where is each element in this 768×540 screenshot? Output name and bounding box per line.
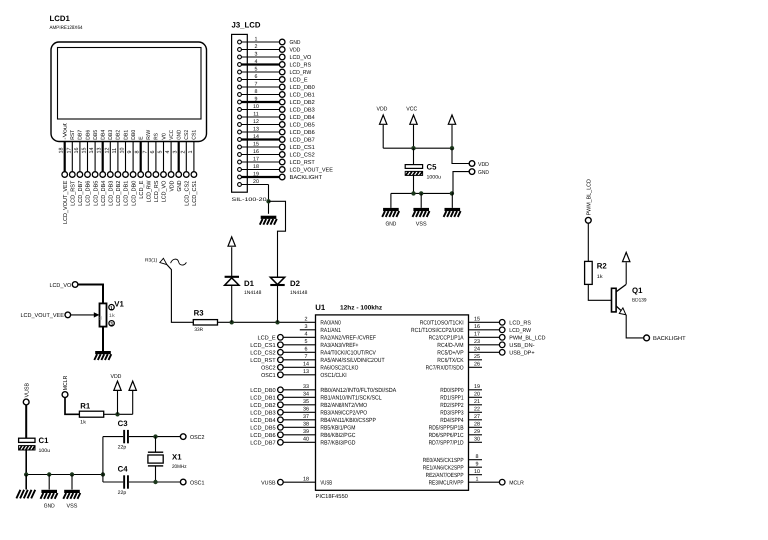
svg-text:LCD_E: LCD_E (139, 180, 145, 198)
svg-text:36: 36 (303, 407, 309, 413)
svg-text:15: 15 (253, 142, 259, 148)
svg-text:40: 40 (303, 437, 309, 443)
LCD1 pin 12 DB3 -> net LCD_DB3 (104, 130, 114, 206)
svg-text:RA4/T0CKI/C1OUT/RCV: RA4/T0CKI/C1OUT/RCV (320, 349, 376, 356)
svg-text:BACKLIGHT: BACKLIGHT (653, 336, 686, 342)
power arrow (VDD terminal branch) (448, 115, 455, 148)
junction bottom bus C5 (411, 191, 415, 195)
LCD1 pin 8 E -> net LCD_E (135, 136, 145, 199)
svg-text:OSC1: OSC1 (261, 373, 276, 379)
wire R2 to Q1 base (588, 284, 611, 300)
svg-text:LCD_DB4: LCD_DB4 (101, 181, 107, 206)
svg-text:16: 16 (253, 149, 259, 155)
LCD1 pin 5 V0 -> net LCD_VO (158, 133, 168, 202)
junction X1 top (153, 434, 157, 438)
wire VUSB to C1 (25, 405, 27, 438)
U1 pin 29 RD6/SPP6/P1C (429, 429, 482, 439)
svg-text:9: 9 (127, 151, 133, 154)
svg-text:20MHz: 20MHz (172, 464, 187, 470)
svg-text:E: E (139, 136, 145, 140)
svg-text:RD1/SPP1: RD1/SPP1 (440, 394, 464, 401)
svg-text:RB3/AN9/CCP2/VPO: RB3/AN9/CCP2/VPO (320, 409, 367, 416)
svg-text:LCD_RW: LCD_RW (290, 70, 312, 76)
wire stub to GND ground (390, 193, 392, 208)
svg-text:VDD: VDD (169, 181, 175, 192)
J3 pin 3 -> net LCD_VO (238, 52, 312, 61)
wire stub to VSS ground (420, 193, 422, 208)
svg-text:LCD_DB5: LCD_DB5 (93, 181, 99, 206)
svg-text:LCD_DB0: LCD_DB0 (290, 85, 315, 91)
LCD1 pin 2 CS2 -> net LCD_CS2 (180, 130, 190, 206)
svg-text:LCD_E: LCD_E (258, 335, 276, 341)
LCD1 pin 14 DB5 -> net LCD_DB5 (89, 130, 99, 206)
svg-text:LCD_DB1: LCD_DB1 (250, 395, 275, 401)
svg-text:RE1/AN6/CK2SPP: RE1/AN6/CK2SPP (423, 464, 464, 471)
wire Q1 collector to power (625, 262, 627, 284)
junction C1 gnd (24, 472, 28, 476)
svg-text:LCD_DB4: LCD_DB4 (250, 418, 275, 424)
svg-text:LCD_RS: LCD_RS (154, 180, 160, 202)
U1 pin 15 RC0/T1OSO/T1CKI (420, 317, 531, 327)
J3 pin 2 -> net VDD (238, 44, 301, 53)
svg-text:38: 38 (303, 422, 309, 428)
J3 pin 12 -> net LCD_DB5 (238, 119, 315, 128)
power arrow 2 (R1) (129, 381, 136, 414)
svg-text:4: 4 (165, 151, 171, 154)
power arrow (Q1) (623, 252, 630, 261)
svg-text:1: 1 (255, 37, 258, 43)
svg-text:LCD_VOUT_VEE: LCD_VOUT_VEE (21, 313, 65, 319)
J3 pin 10 -> net LCD_DB3 (238, 104, 315, 113)
terminal GND (453, 169, 489, 194)
svg-text:4: 4 (305, 332, 308, 338)
svg-text:39: 39 (303, 429, 309, 435)
svg-text:18: 18 (303, 477, 309, 483)
wire to C3 (103, 436, 123, 438)
J3 pin 1 -> net GND (238, 37, 301, 46)
U1 pin 38 RB5/KBI1/PGM (250, 422, 355, 432)
svg-text:V0: V0 (161, 133, 167, 140)
svg-text:25: 25 (474, 354, 480, 360)
svg-text:RD4/SPP4: RD4/SPP4 (440, 417, 464, 424)
svg-text:13: 13 (253, 127, 259, 133)
svg-text:RS: RS (154, 133, 160, 140)
svg-text:19: 19 (253, 172, 259, 178)
U1 pin 26 RC7/RX/DT/SDO (426, 362, 482, 372)
svg-text:RA1/AN1: RA1/AN1 (320, 327, 341, 334)
LCD1 pin 16 DB7 -> net LCD_DB7 (74, 130, 84, 206)
U1 pin 28 RD5/SPP5/P1B (429, 422, 482, 432)
terminal OSC2 (180, 434, 204, 441)
svg-text:R3(1): R3(1) (145, 257, 158, 263)
ground GND (382, 208, 399, 228)
U1 pin 19 RD0/SPP0 (440, 384, 482, 394)
LCD1 pin 18 -Vout -> net LCD_VOUT_VEE (59, 123, 69, 224)
svg-text:LCD_DB4: LCD_DB4 (290, 115, 315, 121)
LCD1 pin 4 VCC -> net VDD (165, 130, 175, 192)
svg-text:DB7: DB7 (78, 130, 84, 140)
LCD display LCD1 AMPIRE128X64 (50, 14, 207, 142)
U1 pin 6 RA4/T0CKI/C1OUT/RCV (250, 347, 376, 357)
svg-text:LCD_DB0: LCD_DB0 (250, 388, 275, 394)
junction R1/VDD (115, 412, 119, 416)
junction GND stub (47, 472, 51, 476)
U1 pin 22 RD3/SPP3 (440, 407, 482, 417)
svg-text:DB0: DB0 (131, 130, 137, 140)
U1 pin 24 RC5/D+/VP (437, 347, 535, 357)
svg-text:OSC1/CLKI: OSC1/CLKI (320, 372, 347, 379)
wire top power bus (383, 147, 452, 149)
svg-text:D2: D2 (290, 279, 301, 288)
svg-text:LCD_VO: LCD_VO (50, 283, 72, 289)
terminal VDD (452, 148, 489, 168)
svg-text:1000u: 1000u (427, 175, 442, 181)
power VDD arrow (R1) (111, 374, 122, 414)
svg-text:7: 7 (305, 354, 308, 360)
svg-text:RA3/AN3/VREF+: RA3/AN3/VREF+ (320, 342, 358, 349)
svg-text:17: 17 (474, 332, 480, 338)
LCD1 pin 6 RS -> net LCD_RS (150, 133, 160, 203)
U1 pin 18 VUSB (261, 477, 332, 487)
U1 pin 25 RC6/TX/CK (437, 354, 482, 364)
wire gnd bus bottom-left (26, 474, 103, 476)
svg-text:2: 2 (255, 44, 258, 50)
svg-text:VDD: VDD (478, 162, 489, 168)
U1 pin 7 RA5/AN4/SS/LVDIN/C2OUT (250, 354, 385, 364)
J3 pin 4 -> net LCD_RS (238, 59, 312, 68)
junction bottom bus right (450, 191, 454, 195)
svg-text:8: 8 (255, 89, 258, 95)
svg-text:10: 10 (120, 148, 126, 154)
svg-text:11: 11 (253, 112, 259, 118)
svg-text:-Vout: -Vout (63, 123, 69, 140)
svg-text:LCD_DB5: LCD_DB5 (290, 122, 315, 128)
resistor R3 33R (193, 309, 217, 334)
U1 pin 3 RA1/AN1 (300, 324, 342, 334)
svg-text:RB7/KBI3/PGD: RB7/KBI3/PGD (320, 439, 356, 446)
svg-text:LCD_VOUT_VEE: LCD_VOUT_VEE (63, 180, 69, 224)
svg-text:29: 29 (474, 429, 480, 435)
svg-text:MCLR: MCLR (509, 480, 524, 486)
U1 pin 37 RB4/AN11/KBI0/CSSPP (250, 414, 376, 424)
svg-text:R2: R2 (597, 261, 608, 270)
resistor R2 1k (585, 261, 608, 284)
svg-text:CS1: CS1 (192, 130, 198, 140)
svg-text:RC1/T1OSI/CCP2/UOE: RC1/T1OSI/CCP2/UOE (411, 327, 464, 334)
J3 pin 5 -> net LCD_RW (238, 67, 312, 76)
svg-text:5: 5 (158, 151, 164, 154)
svg-text:GND: GND (177, 130, 183, 140)
svg-text:V1: V1 (114, 299, 124, 308)
diode D1 1N4148 (225, 247, 262, 322)
svg-text:LCD_RST: LCD_RST (71, 180, 77, 206)
svg-text:VDD: VDD (290, 47, 301, 53)
svg-text:RD7/SPP7/P1D: RD7/SPP7/P1D (429, 439, 465, 446)
svg-text:3: 3 (255, 52, 258, 58)
U1 pin 14 RA6/OSC2/CLKO (261, 362, 359, 372)
diode D2 1N4148 (270, 277, 307, 322)
svg-text:C3: C3 (118, 419, 129, 428)
svg-text:1N4148: 1N4148 (244, 290, 262, 296)
svg-text:DB4: DB4 (101, 130, 107, 140)
svg-text:16: 16 (74, 148, 80, 154)
LCD1 pin 17 RST -> net LCD_RST (66, 129, 76, 206)
svg-text:LCD_CS1: LCD_CS1 (250, 343, 275, 349)
svg-text:C5: C5 (427, 163, 438, 172)
svg-text:VDD: VDD (377, 107, 388, 113)
svg-text:LCD_CS1: LCD_CS1 (192, 181, 198, 206)
svg-text:VDD: VDD (111, 374, 122, 380)
svg-text:RA6/OSC2/CLKO: RA6/OSC2/CLKO (320, 364, 358, 371)
wire C4 to OSC1 (129, 481, 181, 483)
svg-text:BD139: BD139 (632, 297, 647, 303)
svg-text:5: 5 (305, 339, 308, 345)
svg-text:OSC2: OSC2 (261, 365, 276, 371)
svg-text:C4: C4 (118, 465, 129, 474)
U1 pin 5 RA3/AN3/VREF+ (250, 339, 359, 349)
svg-text:RB5/KBI1/PGM: RB5/KBI1/PGM (320, 424, 355, 431)
svg-text:USB_DN-: USB_DN- (509, 343, 534, 349)
svg-text:17: 17 (66, 148, 72, 154)
resistor R1 1k (79, 401, 103, 425)
svg-text:LCD_VOUT_VEE: LCD_VOUT_VEE (290, 167, 334, 173)
wire R3 to U1 pin2 bus (218, 321, 316, 323)
svg-text:GND: GND (290, 40, 301, 46)
U1 pin 20 RD1/SPP1 (440, 392, 482, 402)
svg-text:RB6/KBI2/PGC: RB6/KBI2/PGC (320, 432, 356, 439)
J3 pin 8 -> net LCD_DB1 (238, 89, 315, 98)
svg-text:RC6/TX/CK: RC6/TX/CK (437, 357, 463, 364)
svg-text:12: 12 (104, 148, 110, 154)
wire wiper (71, 312, 100, 317)
svg-text:3: 3 (110, 321, 113, 327)
U1 pin 36 RB3/AN9/CCP2/VPO (250, 407, 367, 417)
wire stub VSS (71, 475, 73, 490)
svg-text:D1: D1 (244, 279, 255, 288)
svg-text:34: 34 (303, 392, 309, 398)
svg-text:LCD_CS2: LCD_CS2 (250, 350, 275, 356)
svg-text:BACKLIGHT: BACKLIGHT (290, 175, 323, 181)
junction VSS stub (70, 472, 74, 476)
svg-text:12: 12 (253, 119, 259, 125)
svg-text:RC7/RX/DT/SDO: RC7/RX/DT/SDO (426, 364, 464, 371)
svg-text:RA5/AN4/SS/LVDIN/C2OUT: RA5/AN4/SS/LVDIN/C2OUT (320, 357, 384, 364)
terminal MCLR (62, 376, 69, 398)
svg-text:LCD_RS: LCD_RS (509, 320, 531, 326)
svg-text:GND: GND (385, 221, 396, 227)
svg-text:LCD_DB0: LCD_DB0 (131, 181, 137, 206)
svg-text:VCC: VCC (169, 130, 175, 140)
connector J3_LCD SIL-100-20 (232, 21, 267, 204)
svg-text:LCD_DB3: LCD_DB3 (109, 181, 115, 206)
svg-text:RC5/D+/VP: RC5/D+/VP (437, 349, 463, 356)
J3 pin 17 -> net LCD_RST (238, 157, 316, 166)
svg-text:DB3: DB3 (108, 130, 114, 140)
svg-text:RE0/AN5/CK1SPP: RE0/AN5/CK1SPP (423, 457, 464, 464)
U1 pin 35 RB2/AN8/INT2/VMO (250, 399, 367, 409)
svg-text:LCD_VO: LCD_VO (162, 180, 168, 202)
junction D2 node (275, 320, 279, 324)
svg-text:13: 13 (303, 369, 309, 375)
svg-text:GND: GND (478, 170, 489, 176)
svg-text:DB5: DB5 (93, 130, 99, 140)
J3 pin 11 -> net LCD_DB4 (238, 112, 315, 121)
svg-text:1k: 1k (98, 316, 103, 320)
LCD1 pin 1 CS1 -> net LCD_CS1 (188, 130, 198, 206)
U1 pin 34 RB1/AN10/INT1/SCK/SCL (250, 392, 382, 402)
svg-text:RB2/AN8/INT2/VMO: RB2/AN8/INT2/VMO (320, 402, 367, 409)
wire C1 to gnd bus (25, 450, 27, 475)
terminal LCD_VO (50, 282, 78, 289)
svg-text:VUSB: VUSB (24, 383, 30, 398)
svg-text:AMPIRE128X64: AMPIRE128X64 (50, 25, 83, 31)
svg-text:LCD_RW: LCD_RW (509, 328, 531, 334)
svg-text:RD6/SPP6/P1C: RD6/SPP6/P1C (429, 432, 465, 439)
svg-text:CS2: CS2 (184, 130, 190, 140)
terminal LCD_VOUT_VEE (21, 312, 71, 319)
svg-text:LCD_RST: LCD_RST (250, 358, 276, 364)
wire V1 bottom to ground (102, 327, 104, 351)
svg-text:LCD_DB2: LCD_DB2 (250, 403, 275, 409)
terminal BACKLIGHT (644, 335, 686, 342)
J3 pin 7 -> net LCD_DB0 (238, 82, 315, 91)
LCD1 pin 10 DB1 -> net LCD_DB1 (120, 130, 130, 206)
svg-text:1k: 1k (597, 274, 603, 280)
svg-text:LCD_DB3: LCD_DB3 (290, 107, 315, 113)
svg-text:12hz - 100khz: 12hz - 100khz (340, 305, 382, 312)
svg-text:RST: RST (70, 129, 76, 140)
svg-text:LCD_CS1: LCD_CS1 (290, 145, 315, 151)
svg-text:USB_DP+: USB_DP+ (509, 350, 535, 356)
svg-text:22p: 22p (118, 490, 127, 496)
svg-text:21: 21 (474, 399, 480, 405)
crystal X1 20MHz (148, 437, 187, 482)
U1 pin 8 RE0/AN5/CK1SPP (423, 454, 482, 464)
svg-text:1N4148: 1N4148 (290, 290, 308, 296)
svg-text:20: 20 (253, 179, 259, 185)
transistor Q1 BD139 (612, 284, 647, 314)
capacitor C4 22p (118, 465, 129, 497)
svg-text:RD0/SPP0: RD0/SPP0 (440, 387, 464, 394)
svg-text:7: 7 (255, 82, 258, 88)
svg-text:14: 14 (303, 362, 309, 368)
svg-text:C1: C1 (39, 436, 50, 445)
svg-text:22p: 22p (118, 445, 127, 451)
svg-text:RB0/AN12/INT0/FLT0/SDI/SDA: RB0/AN12/INT0/FLT0/SDI/SDA (320, 387, 396, 394)
power VCC arrow (406, 107, 417, 149)
ground (unlabeled) (444, 208, 461, 217)
svg-text:DB1: DB1 (123, 130, 129, 140)
capacitor C1 100u (19, 436, 51, 454)
svg-text:LCD_DB2: LCD_DB2 (116, 181, 122, 206)
wire bottom gnd bus (391, 192, 453, 194)
svg-text:DB6: DB6 (85, 130, 91, 140)
junction J3-gnd node (266, 199, 270, 203)
junction D1 node (230, 320, 234, 324)
svg-text:LCD_CS2: LCD_CS2 (290, 152, 315, 158)
svg-text:RA0/AN0: RA0/AN0 (320, 319, 341, 326)
wire MCLR to R1 (65, 398, 79, 415)
svg-text:OSC1: OSC1 (190, 480, 205, 486)
svg-text:PIC18F4550: PIC18F4550 (316, 494, 348, 500)
svg-text:23: 23 (474, 339, 480, 345)
potentiometer V1 1k (98, 299, 125, 327)
svg-text:10: 10 (474, 469, 480, 475)
svg-text:27: 27 (474, 414, 480, 420)
svg-text:22: 22 (474, 407, 480, 413)
svg-text:LCD_E: LCD_E (290, 77, 308, 83)
svg-text:LCD_DB1: LCD_DB1 (124, 181, 130, 206)
power arrow above D1 (228, 237, 235, 246)
svg-text:RB4/AN11/KBI0/CSSPP: RB4/AN11/KBI0/CSSPP (320, 417, 376, 424)
svg-text:LCD_RST: LCD_RST (290, 160, 316, 166)
svg-text:RC2/CCP1/P1A: RC2/CCP1/P1A (429, 334, 464, 341)
wire R1 to VDD (104, 413, 133, 415)
svg-text:VSS: VSS (416, 221, 427, 227)
svg-text:26: 26 (474, 362, 480, 368)
svg-text:24: 24 (474, 347, 480, 353)
power VDD arrow (377, 107, 388, 149)
svg-text:14: 14 (253, 134, 259, 140)
svg-text:LCD_DB6: LCD_DB6 (250, 433, 275, 439)
wire stub C1 ground (25, 475, 27, 490)
U1 pin 33 RB0/AN12/INT0/FLT0/SDI/SDA (250, 384, 396, 394)
svg-text:5: 5 (255, 67, 258, 73)
LCD1 pin 13 DB4 -> net LCD_DB4 (97, 130, 107, 206)
U1 pin 23 RC4/D-/VM (437, 339, 534, 349)
svg-text:RD5/SPP5/P1B: RD5/SPP5/P1B (429, 424, 464, 431)
LCD1 pin 7 R/W -> net LCD_RW (142, 129, 152, 202)
J3 pin 18 -> net LCD_VOUT_VEE (238, 164, 333, 173)
junction top bus right (450, 146, 454, 150)
capacitor C3 22p (118, 419, 129, 450)
svg-text:6: 6 (150, 151, 156, 154)
junction bottom bus VSS (419, 191, 423, 195)
J3 pin 16 -> net LCD_CS2 (238, 149, 315, 158)
LCD1 pin 3 GND -> net GND (173, 130, 183, 192)
U1 pin 13 OSC1/CLKI (261, 369, 347, 379)
ground VSS (bottom) (63, 490, 80, 510)
svg-text:LCD_DB7: LCD_DB7 (78, 181, 84, 206)
svg-text:RD3/SPP3: RD3/SPP3 (440, 409, 464, 416)
svg-text:10: 10 (253, 104, 259, 110)
ground VSS (413, 208, 430, 228)
svg-text:4: 4 (255, 59, 258, 65)
svg-text:33: 33 (303, 384, 309, 390)
U1 pin 21 RD2/SPP2 (440, 399, 482, 409)
svg-text:R1: R1 (80, 401, 91, 410)
wire C3 to OSC2 (129, 436, 181, 438)
terminal PWM_BL_LCD (585, 179, 592, 223)
svg-text:8: 8 (476, 454, 479, 460)
svg-text:7: 7 (142, 151, 148, 154)
wire Q1 emitter to BACKLIGHT (626, 315, 644, 338)
svg-text:MCLR: MCLR (63, 376, 69, 391)
U1 pin 39 RB6/KBI2/PGC (250, 429, 356, 439)
svg-text:OSC2: OSC2 (190, 435, 205, 441)
svg-text:X1: X1 (172, 453, 182, 462)
svg-text:VUSB: VUSB (320, 479, 332, 486)
svg-text:PWM_BL_LCD: PWM_BL_LCD (509, 335, 545, 341)
junction top bus at C5 (411, 146, 415, 150)
svg-text:33R: 33R (194, 327, 203, 333)
wire LCD_VO to V1 top (78, 285, 103, 304)
LCD1 pin 9 DB0 -> net LCD_DB0 (127, 130, 137, 206)
svg-text:LCD_DB6: LCD_DB6 (290, 130, 315, 136)
svg-text:U1: U1 (315, 303, 326, 312)
J3 pin 9 -> net LCD_DB2 (238, 97, 315, 106)
svg-text:18: 18 (253, 164, 259, 170)
